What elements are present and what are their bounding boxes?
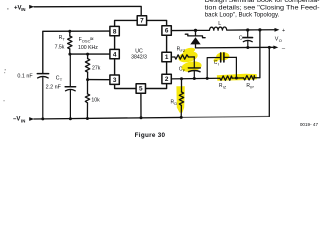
capacitor CI loop (207, 53, 236, 79)
svg-text:0.1 nF: 0.1 nF (17, 74, 33, 80)
svg-text:100 KHz: 100 KHz (78, 45, 98, 51)
svg-text:7.5k: 7.5k (55, 44, 65, 50)
junction output cap top (246, 28, 249, 31)
svg-text:C: C (239, 36, 243, 42)
junction RT / CT / pin4 (68, 53, 71, 56)
svg-text:O: O (279, 38, 282, 43)
wire pin 2 row (171, 77, 220, 80)
RT label (55, 35, 66, 50)
svg-text:IZ: IZ (223, 85, 227, 89)
junction 0.1nF/ground (41, 117, 44, 120)
junction 27k top (86, 53, 89, 56)
svg-text:T: T (60, 77, 63, 82)
capacitor CT 2.2nF (65, 54, 75, 119)
svg-text:≅: ≅ (90, 37, 94, 43)
svg-text:T: T (62, 36, 65, 41)
svg-text:IN: IN (21, 7, 25, 12)
wire oscillator top rail to pin 8 (43, 31, 110, 73)
CI label (214, 60, 219, 67)
node -VIN label (13, 117, 25, 124)
-VO output arrow (273, 46, 278, 50)
wire feedback tap down to divider (255, 30, 260, 78)
svg-text:7: 7 (140, 18, 144, 25)
svg-text:–V: –V (13, 117, 20, 123)
capacitor CF (188, 57, 200, 79)
svg-text:0019- 47: 0019- 47 (300, 122, 319, 127)
junction RD bottom (180, 116, 183, 119)
UC3842/3 label (131, 48, 147, 60)
op-amp U1 IC body UC3842/3 (115, 20, 167, 88)
RIZ label (219, 83, 227, 90)
diode D1 schottky catch diode (185, 30, 205, 48)
node +VIN label (14, 6, 26, 13)
resistor RIP (244, 76, 255, 80)
highlighter mark over R_FZ (177, 47, 198, 64)
wire -VO to ground rail (268, 47, 270, 116)
pin 3 (110, 75, 119, 84)
svg-text:6: 6 (165, 28, 169, 35)
pin 2 (162, 74, 171, 83)
svg-text:back Loop", Buck Topology.: back Loop", Buck Topology. (205, 11, 280, 18)
highlighter mark over C_F (181, 60, 203, 73)
wire pin 6 to switch node (171, 29, 195, 31)
svg-text:FZ: FZ (181, 49, 186, 53)
svg-text:2: 2 (165, 76, 169, 83)
note text top right (205, 0, 320, 18)
scan specks left edge (3, 8, 8, 101)
junction C bottom (246, 46, 249, 49)
pin 7 (137, 16, 146, 25)
svg-text:2.2 nF: 2.2 nF (46, 85, 62, 91)
junction 27k/10k/pin3 (86, 78, 89, 81)
wire pin 5 to ground rail (140, 93, 142, 118)
pin 1 (162, 52, 171, 61)
inductor L (196, 27, 248, 30)
wire bottom ground rail (34, 117, 181, 119)
junction feedback tap (258, 28, 261, 31)
resistor RT 7.5k (68, 31, 72, 54)
wire +VIN top rail to pin 7 (34, 6, 141, 15)
RD label (171, 99, 178, 106)
highlighter mark over R_D (176, 86, 184, 112)
highlighter mark over C_I (213, 52, 230, 63)
svg-text:tion details; see "Closing The: tion details; see "Closing The Feed- (205, 4, 320, 11)
resistor RIZ (220, 76, 232, 80)
junction 10k/ground (86, 117, 89, 120)
junction RD top (180, 77, 183, 80)
svg-text:3: 3 (113, 77, 117, 84)
-VIN input arrow (29, 117, 34, 121)
svg-text:27k: 27k (92, 65, 101, 71)
resistor RFZ (171, 55, 194, 59)
wire RT bottom to pin 4 (70, 53, 110, 55)
wire bottom rail right segment (181, 116, 269, 117)
pin 8 (110, 26, 119, 35)
junction CI loop left (206, 77, 209, 80)
RIP label (246, 83, 254, 90)
svg-text:+: + (282, 28, 285, 34)
+VIN input arrow (29, 5, 34, 9)
svg-text:1: 1 (165, 54, 169, 61)
resistor 27k (85, 54, 89, 80)
FOSC 100KHz label (78, 37, 98, 51)
wire 27k/10k junction to pin 3 (88, 79, 110, 81)
svg-text:5: 5 (139, 86, 143, 93)
resistor 10k (85, 80, 89, 119)
svg-text:L: L (218, 21, 221, 27)
pin 4 (110, 49, 119, 58)
svg-text:I: I (218, 63, 219, 67)
wire diode anode to -VO line (196, 46, 274, 49)
capacitor C output (243, 30, 253, 48)
svg-text:IP: IP (250, 85, 254, 89)
+VO output arrow (275, 28, 280, 32)
svg-text:IN: IN (21, 118, 25, 123)
pin 6 (162, 26, 171, 35)
CF label (179, 66, 186, 73)
junction switch node (194, 29, 197, 32)
junction -VO down wire (268, 46, 271, 49)
capacitor 0.1 nF (37, 74, 48, 119)
svg-text:10k: 10k (91, 98, 100, 104)
svg-text:8: 8 (113, 28, 117, 35)
junction pin5/ground (140, 116, 143, 119)
highlighter mark over R_IZ and R_IP (217, 74, 257, 81)
svg-text:D: D (174, 102, 177, 106)
junction RT top (68, 30, 71, 33)
svg-text:Figure 30: Figure 30 (135, 132, 166, 139)
svg-text:4: 4 (113, 51, 117, 58)
junction CT/ground (69, 117, 72, 120)
pin 5 (136, 84, 145, 93)
wire output rail to +VO arrow (248, 29, 275, 31)
CT label (46, 76, 63, 91)
svg-text:–: – (282, 45, 286, 51)
wire RIZ to RIP (232, 77, 243, 79)
VO label (275, 36, 282, 43)
RFZ label (177, 47, 186, 54)
svg-text:3842/3: 3842/3 (131, 54, 147, 60)
junction CI loop right (235, 77, 238, 80)
junction CF bottom (193, 77, 196, 80)
resistor RD (179, 79, 183, 118)
